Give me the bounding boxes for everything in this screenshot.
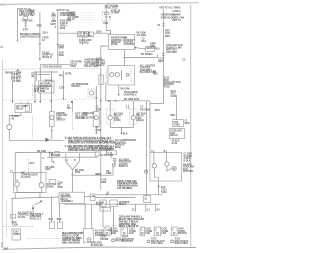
svg-text:FAN: FAN [161,232,166,235]
engine bay dotted boundary [3,99,103,100]
splice box on bus R [95,152,99,156]
right small box [146,47,155,52]
tick on RED wire [39,43,42,45]
svg-text:S117: S117 [23,30,29,32]
frame left border [2,60,4,248]
svg-text:RED: RED [155,110,160,112]
tick on V wire [71,174,74,176]
dashed line bottom left [27,238,60,240]
wire x146.5 [146,101,148,196]
wire x63.5 down [63,71,65,99]
svg-text:GRN: GRN [57,187,62,189]
vertical ground wire [11,198,13,223]
mid wire down [40,152,42,182]
wire ORN bus down [57,12,59,65]
svg-text:ORN: ORN [51,16,56,18]
svg-text:B PPL: B PPL [65,74,72,76]
svg-text:CONTROL: CONTROL [124,44,136,46]
svg-text:I/P: I/P [16,71,19,73]
dot [12,101,14,103]
svg-text:S255: S255 [109,149,115,151]
svg-text:CLUTCH: CLUTCH [21,177,31,179]
tick on ORN bus [56,43,59,45]
lower horizontal [65,203,160,205]
svg-text:BLK: BLK [30,163,35,165]
B_R circle 2 [165,162,169,166]
svg-text:FEED: FEED [164,86,170,88]
U2 inner marks [121,70,123,80]
svg-text:(HIGH): (HIGH) [136,120,144,122]
clutch wire top [8,116,10,125]
pressure switch symbol [89,91,93,95]
wire down to fan box [149,101,151,153]
horizontal wire to relay chain [58,32,78,34]
svg-text:ASSEMBLY: ASSEMBLY [60,200,73,203]
svg-text:S100: S100 [29,10,35,12]
svg-text:(LOW): (LOW) [114,120,121,122]
svg-text:RED: RED [158,61,163,63]
wire right of box [85,196,96,198]
right wire from bus [51,153,53,161]
lower bus second line [47,156,98,158]
svg-text:JUNCTION BLOCK: JUNCTION BLOCK [20,36,41,38]
svg-text:SUPPORT: SUPPORT [122,241,134,243]
svg-text:PAGE 11-2: PAGE 11-2 [30,217,42,220]
splice box on bus L [55,151,59,156]
horizontal bus over solenoids [106,100,150,102]
cutoff switch circles [113,159,116,162]
svg-text:FUSE: FUSE [174,124,181,126]
small box right [90,194,95,201]
wire below relay [82,37,84,45]
svg-text:A/C REQ: A/C REQ [79,41,89,44]
left dashed vertical [5,200,7,238]
wire to ground [39,193,41,198]
wire down from join [121,127,123,133]
svg-text:MOTOR: MOTOR [178,233,187,235]
top box coolant fan sw [107,151,117,155]
frame top border [0,3,199,5]
diode circle [39,183,44,188]
U2 left connector dashes [105,70,107,83]
svg-text:DK GRN: DK GRN [140,109,149,111]
svg-text:ORN: ORN [59,48,64,50]
svg-text:FAN: FAN [145,232,150,235]
svg-text:FUSE 30A: FUSE 30A [22,20,33,23]
svg-text:C 14: C 14 [107,152,113,155]
connector tick C1 [25,22,27,24]
svg-text:S120: S120 [150,48,156,50]
svg-text:THROUGH 10-3 FOR MORE INFORMAT: THROUGH 10-3 FOR MORE INFORMATION. [68,142,116,145]
svg-text:PPL: PPL [59,75,64,77]
svg-text:RED C1: RED C1 [172,20,181,22]
svg-text:RED: RED [185,123,190,125]
join dot [121,133,123,135]
svg-text:BLOCK RH: BLOCK RH [91,245,103,247]
join wires below solenoids [110,120,133,128]
arrow A to A/C compressor [39,59,41,61]
splice wire down [32,205,34,217]
frame bottom-left corner [1,242,3,248]
left hang wires [51,197,53,222]
wire x40.3 down [39,65,41,81]
svg-text:A/C REQ: A/C REQ [137,34,147,37]
clutch coil circle [15,182,20,187]
horizontal wire y74.4 [38,73,51,75]
wire x111 low [110,227,112,235]
svg-text:RED: RED [165,36,170,38]
svg-text:B BLK: B BLK [184,161,191,163]
B_R internal wires [153,153,155,164]
U2 dashed inner [130,68,132,82]
svg-text:M: M [173,169,175,171]
svg-text:10 AMP: 10 AMP [111,12,120,15]
right bus wire [162,9,164,104]
svg-text:ORN: ORN [59,55,64,57]
horizontal wire to junction [40,64,70,66]
B_R stubs top [153,150,155,152]
box right lower [144,196,151,203]
svg-text:RED: RED [170,115,175,117]
dashed segment [100,225,117,227]
lower horizontal 2 [96,194,164,196]
jog to S255 [101,147,111,149]
bulkhead dashed line [3,67,98,70]
solenoid L dashed case [107,109,115,124]
dashed mid col [71,111,73,130]
corner to fan box [150,103,163,105]
svg-text:30 AMP: 30 AMP [172,14,181,17]
right branch wire [176,95,178,120]
solenoid R circle [131,116,135,120]
svg-text:COOL FAN: COOL FAN [172,16,184,19]
frame right border [190,5,192,248]
svg-text:SIGNAL: SIGNAL [96,64,105,67]
svg-text:AND LOCATION: AND LOCATION [62,242,80,245]
fuse F10 dashed block [102,12,110,21]
compressor dashed box [14,172,47,192]
svg-text:14-2: 14-2 [4,247,9,250]
svg-text:RIGHT SIDE: RIGHT SIDE [175,243,189,245]
box B_LC [59,192,85,203]
svg-text:FUSE 6: FUSE 6 [172,11,181,13]
diode box [89,32,94,37]
bottom mid boxes [95,196,136,198]
wire into switch [110,155,112,159]
svg-text:BLK: BLK [49,219,54,221]
wire left bus [16,8,18,41]
connector tick C2 [25,25,27,27]
dotted leader above note [64,135,94,137]
fuse on left wire [99,75,103,84]
svg-text:C210: C210 [171,96,177,98]
dotted leaders [80,12,95,14]
svg-text:SWITCH: SWITCH [71,86,80,88]
svg-text:S114: S114 [42,31,48,34]
relay box K1 [78,32,89,38]
wire x12.5 down [12,81,14,102]
bottom-left legend box [12,229,21,240]
note arrow marker [45,138,49,142]
svg-text:MOTORS: MOTORS [183,171,194,173]
svg-text:BLU: BLU [142,41,147,43]
svg-text:ENG: ENG [111,233,116,235]
splice circle [145,170,148,173]
svg-text:RELAY: RELAY [16,107,24,110]
svg-text:ASM: ASM [40,90,45,93]
svg-text:S206: S206 [60,28,66,30]
motor box [84,229,94,243]
wire below switch [112,167,114,175]
frame bottom border [2,247,196,249]
dashed boundary left [3,226,33,228]
svg-text:BLK: BLK [34,91,39,93]
svg-text:CONN: CONN [13,234,20,236]
fan switch box R [93,112,99,127]
svg-text:S205: S205 [50,24,56,26]
wire x105.8 down [105,82,107,101]
wire x51.3 down [50,71,52,101]
stub above R [95,86,97,112]
right bus ticks [162,23,165,25]
svg-text:CONTROLS: CONTROLS [124,94,137,96]
svg-text:RELAY: RELAY [170,134,178,137]
svg-text:S352: S352 [75,172,81,174]
V wires converge [66,153,80,192]
lower-left horizontal wire [12,197,59,198]
svg-text:SWITCH: SWITCH [119,166,128,168]
small boxes [50,222,55,229]
dot junction [100,100,102,102]
svg-text:RED: RED [37,26,42,28]
svg-text:C121: C121 [59,87,65,89]
dashed segment mid [32,116,34,140]
clutch wire bottom [9,130,63,141]
vertical stub [35,72,37,81]
inline connector [11,215,16,219]
wire from relay chain [94,32,111,34]
bottom join wire [17,187,42,193]
U2 small circle [126,73,129,76]
svg-text:FRAME: FRAME [100,238,109,241]
bus dots [108,100,110,102]
wire below fan L [51,127,53,141]
horizontal wire main lower [15,151,97,153]
svg-text:FAN: FAN [129,232,134,235]
compressor clutch circle [7,125,12,130]
horizontal wire above U2 [123,54,158,57]
svg-text:C3 ORN: C3 ORN [12,81,21,83]
fan switch box L [50,112,55,127]
svg-text:LEFT SIDE: LEFT SIDE [151,243,163,245]
svg-text:RELAY: RELAY [119,203,127,206]
horizontal wire y72 [35,71,58,73]
junction dot U1 right [135,47,137,49]
arrow below U2 [118,94,120,96]
svg-text:BLK: BLK [123,134,128,136]
svg-text:DIODE: DIODE [47,186,55,188]
dashed inner [27,159,29,173]
arrow to splice [35,201,41,205]
svg-text:ORN: ORN [70,66,75,68]
wire RED down [39,12,41,61]
svg-text:RED: RED [153,73,158,75]
wire left at y175 [72,174,113,176]
svg-text:G110: G110 [172,143,178,145]
svg-text:S350: S350 [45,169,51,171]
splice S100 circle [31,12,34,15]
connector u-shapes [126,105,128,109]
bus stubs [109,101,111,116]
B_R circle 1 [152,164,156,168]
dotted vertical right of note [106,137,108,152]
fuse F1 box [24,16,28,19]
svg-text:(PAGE 2): (PAGE 2) [42,56,52,59]
wire IGN down [105,9,107,31]
splice dot S231 [71,101,73,103]
svg-text:C100 BULKHEAD: C100 BULKHEAD [43,65,62,68]
hang wires [84,204,86,228]
fan circle R [94,116,98,120]
bus connector stub [49,152,51,157]
svg-text:PPL: PPL [67,108,72,110]
svg-text:BLU: BLU [155,49,160,51]
stub labels [135,204,137,212]
junction dots lower [62,196,64,198]
svg-text:PNK: PNK [103,23,108,25]
svg-text:S122 RED: S122 RED [166,52,177,54]
svg-text:BULB TEST: BULB TEST [105,8,118,10]
svg-text:S130: S130 [161,192,167,194]
svg-text:(REF): (REF) [115,147,121,149]
U1 left pin wire [101,46,109,190]
svg-text:A/C ON (REF): A/C ON (REF) [117,187,132,190]
fuse pin tick [105,16,108,18]
small box right [49,180,56,184]
pressure switch box [38,81,54,93]
wire x35 down [34,71,36,102]
left wire down [14,152,16,181]
svg-text:VALVE: VALVE [18,216,26,219]
U2 gauge circle 1 [110,73,114,77]
fan circle L [50,116,54,120]
legend row B grounds [112,239,115,242]
splice V marks [106,191,109,195]
svg-text:GROUND CIRCUITS AND LOCATIONS.: GROUND CIRCUITS AND LOCATIONS. [68,149,111,152]
right relay box [169,129,185,139]
svg-text:RELAY: RELAY [67,18,75,21]
wire below U2 [118,85,120,96]
module U1 box [108,35,134,50]
svg-text:DK GRN: DK GRN [37,151,46,153]
wire below B_R [158,181,160,195]
svg-text:SWITCH: SWITCH [56,120,65,122]
leader bracket [10,74,12,80]
solenoid R dashed case [130,109,138,124]
corner into module [106,30,110,34]
svg-text:DK GRN: DK GRN [120,88,129,90]
box U2 cluster [108,66,135,86]
connector mark [162,52,165,54]
svg-text:(PCM): (PCM) [111,44,118,46]
svg-text:HOT AT ALL TIMES: HOT AT ALL TIMES [159,7,180,10]
fuse F10 element [104,12,108,14]
dashed connector mid [32,85,34,98]
solenoid L circle [108,116,112,120]
svg-text:C2 DK GRN: C2 DK GRN [101,155,114,157]
relay box left [15,104,31,113]
corner [64,203,66,206]
svg-text:GRN: GRN [101,182,106,184]
wire below fan R [95,127,97,133]
wires down [102,207,104,228]
U2 gauge circle 2 [115,73,119,77]
relay stubs [20,102,22,104]
svg-text:RESISTOR: RESISTOR [83,117,95,119]
svg-text:A/C: A/C [149,53,153,56]
wire from F1 [25,20,27,29]
motor circle [87,238,91,242]
page top scan band [0,4,6,6]
coolant fan box B_R [150,153,182,181]
svg-text:DK BLU: DK BLU [45,80,54,82]
svg-text:ORN: ORN [51,21,56,23]
svg-text:S352: S352 [95,174,101,176]
svg-text:BLK: BLK [57,219,62,221]
right fuse box [173,120,184,127]
relay to clutch L wire [9,113,21,116]
stub above [50,101,52,112]
wire stub U1 bottom [124,50,126,66]
B_R motor circle [172,166,176,170]
